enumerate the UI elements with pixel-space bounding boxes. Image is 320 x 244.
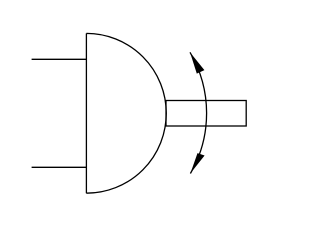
arrowhead (bottom, clockwise)	[190, 153, 204, 173]
wire: bottom port line	[32, 166, 87, 168]
wire: top port line	[32, 58, 87, 60]
semi-rotary actuator body A1 (half-circle)	[86, 33, 166, 193]
arrowhead (top, counter-clockwise)	[190, 52, 204, 73]
output shaft rectangle	[166, 101, 246, 127]
rotation arrow arc	[190, 52, 207, 173]
